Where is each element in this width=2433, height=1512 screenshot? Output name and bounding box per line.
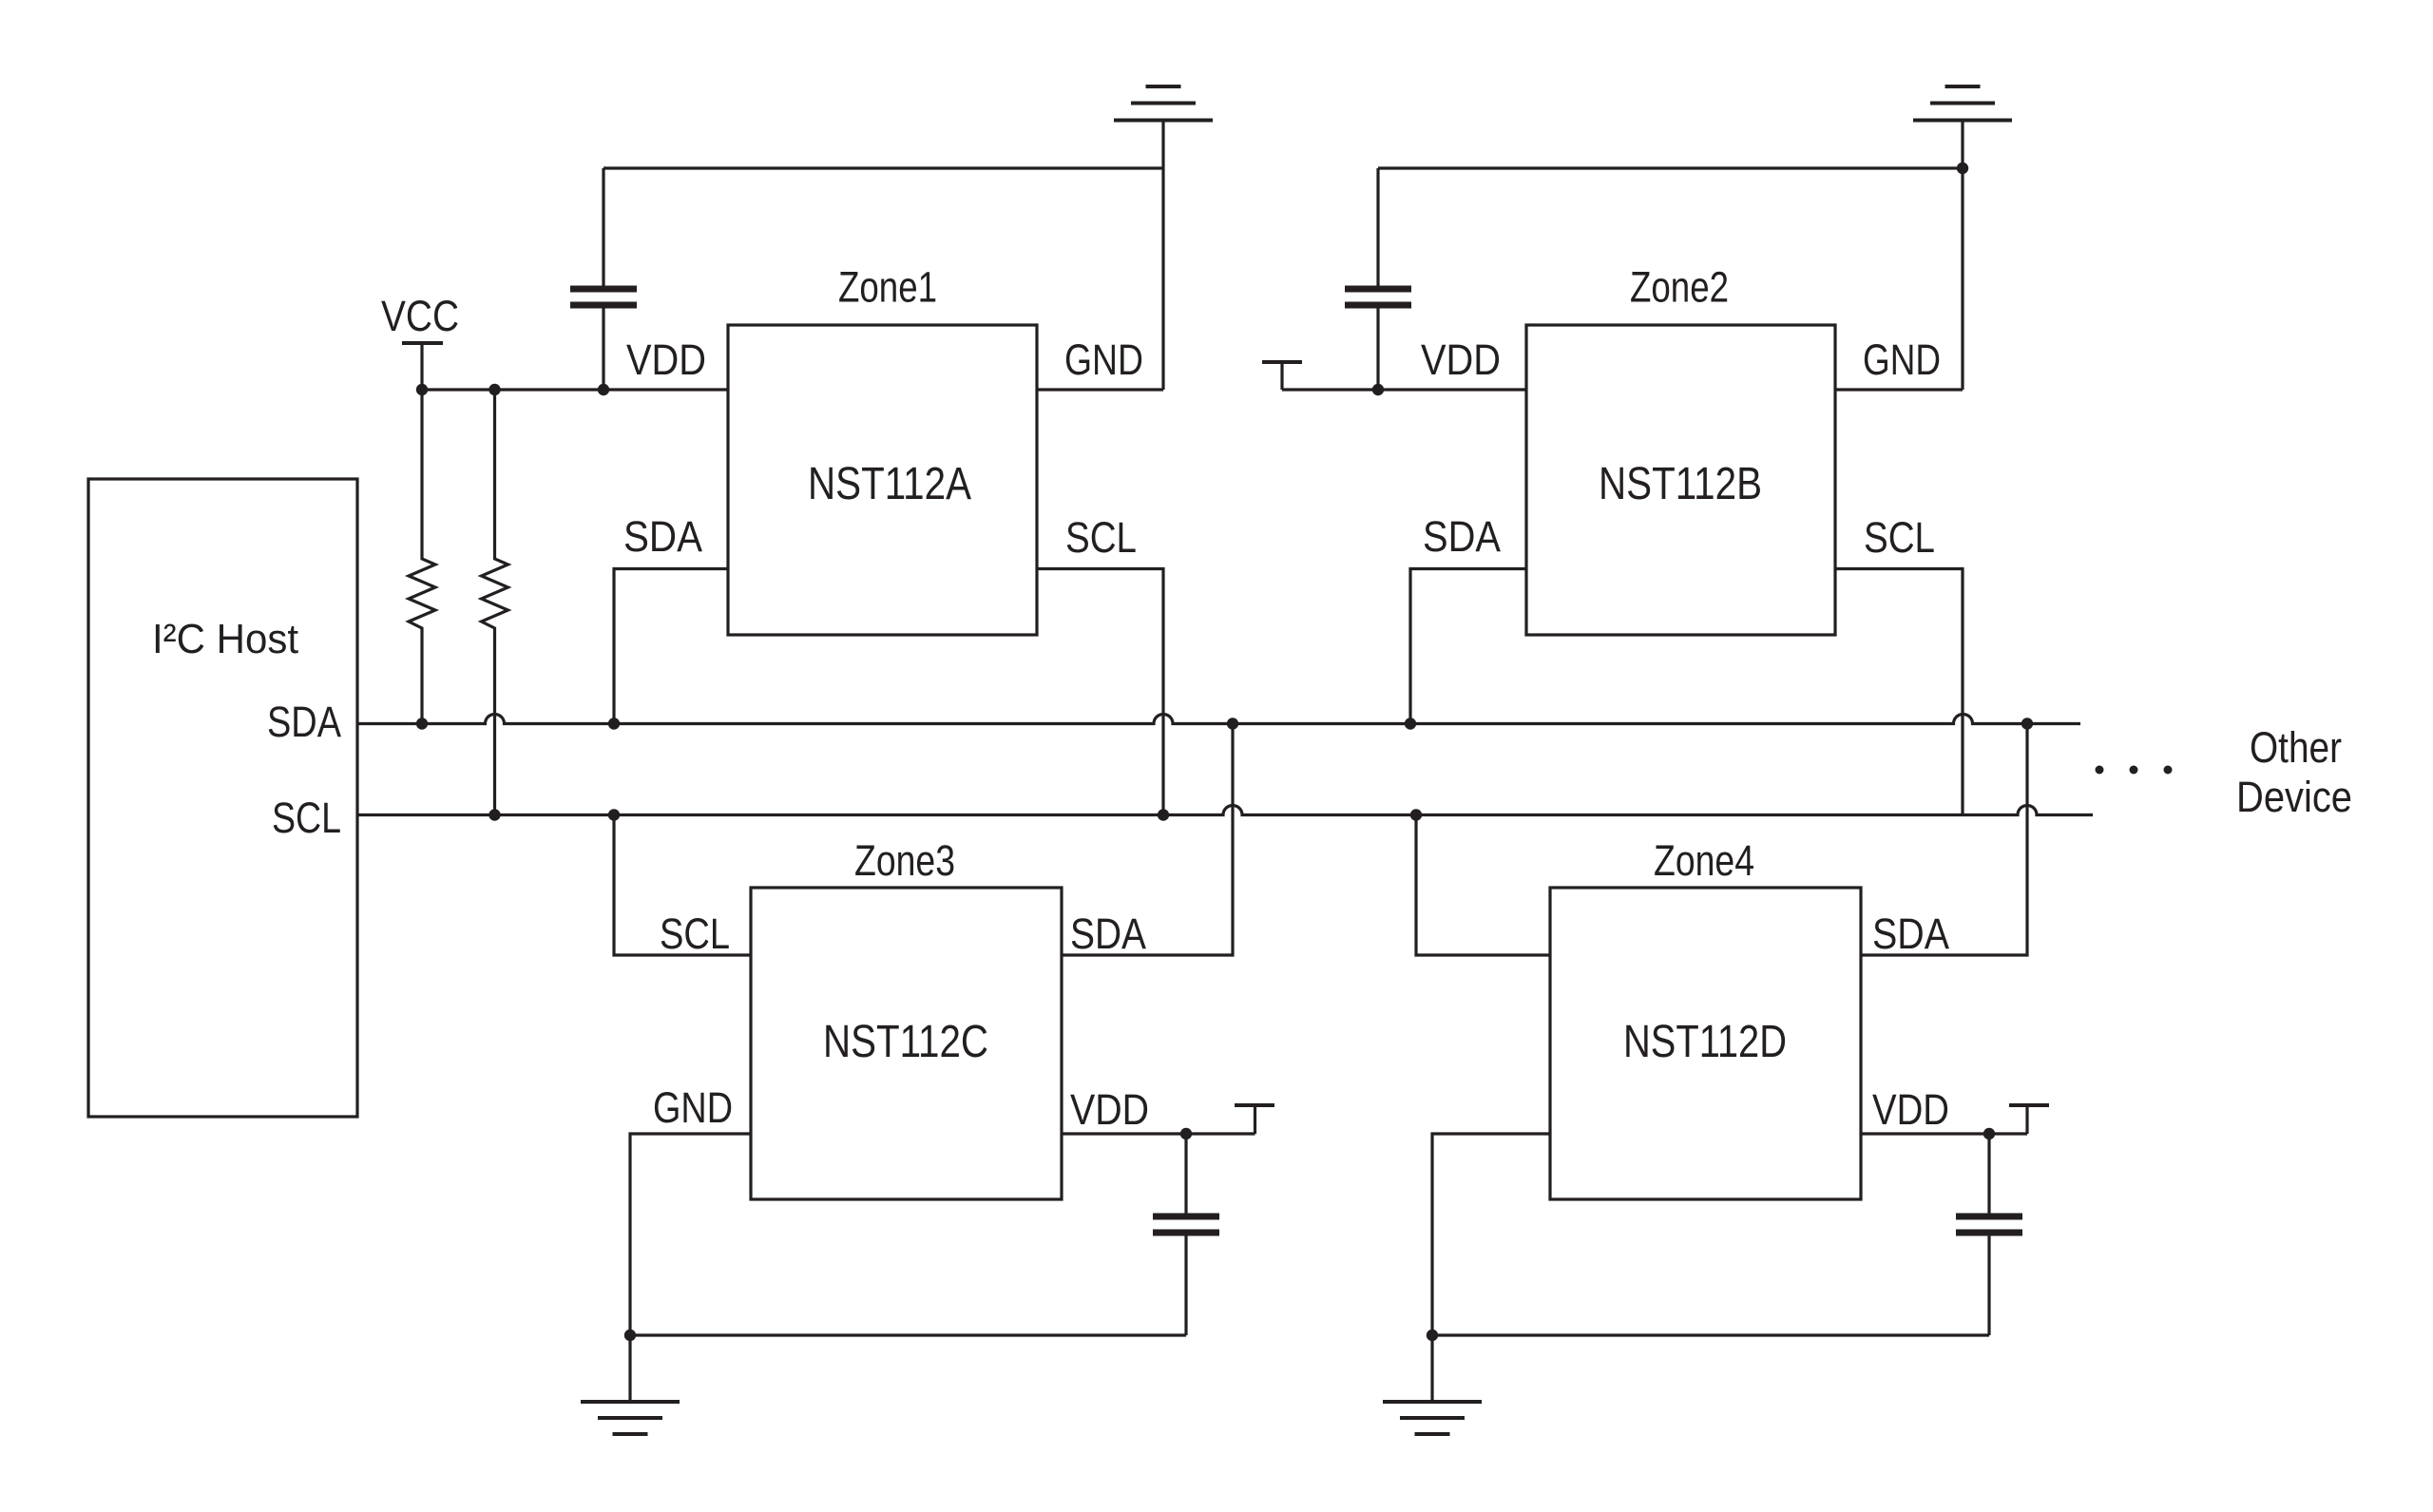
svg-text:Zone4: Zone4 [1654, 836, 1754, 885]
svg-text:I²C Host: I²C Host [152, 616, 298, 662]
svg-text:SDA: SDA [623, 512, 702, 561]
svg-text:SDA: SDA [1872, 909, 1949, 958]
svg-text:SCL: SCL [272, 794, 341, 842]
svg-text:Zone1: Zone1 [838, 263, 937, 312]
svg-text:GND: GND [1064, 335, 1143, 384]
svg-text:GND: GND [1863, 335, 1941, 384]
svg-text:VDD: VDD [1872, 1085, 1949, 1134]
svg-text:VCC: VCC [381, 292, 459, 340]
svg-text:NST112B: NST112B [1599, 459, 1762, 509]
svg-text:VDD: VDD [1070, 1085, 1149, 1134]
svg-text:SCL: SCL [1065, 513, 1137, 562]
svg-text:SDA: SDA [1423, 512, 1501, 561]
svg-text:NST112D: NST112D [1623, 1017, 1787, 1067]
svg-text:NST112A: NST112A [808, 459, 971, 509]
svg-text:SCL: SCL [1864, 513, 1935, 562]
svg-text:NST112C: NST112C [823, 1017, 988, 1067]
svg-text:VDD: VDD [1421, 335, 1501, 384]
svg-text:SDA: SDA [267, 698, 341, 746]
svg-text:GND: GND [653, 1083, 733, 1132]
svg-text:Device: Device [2236, 773, 2352, 821]
svg-text:Zone3: Zone3 [854, 836, 955, 885]
svg-text:Zone2: Zone2 [1630, 263, 1729, 312]
svg-text:VDD: VDD [626, 335, 706, 384]
svg-text:SCL: SCL [660, 909, 730, 958]
svg-text:SDA: SDA [1070, 909, 1146, 958]
svg-text:Other: Other [2250, 723, 2342, 772]
